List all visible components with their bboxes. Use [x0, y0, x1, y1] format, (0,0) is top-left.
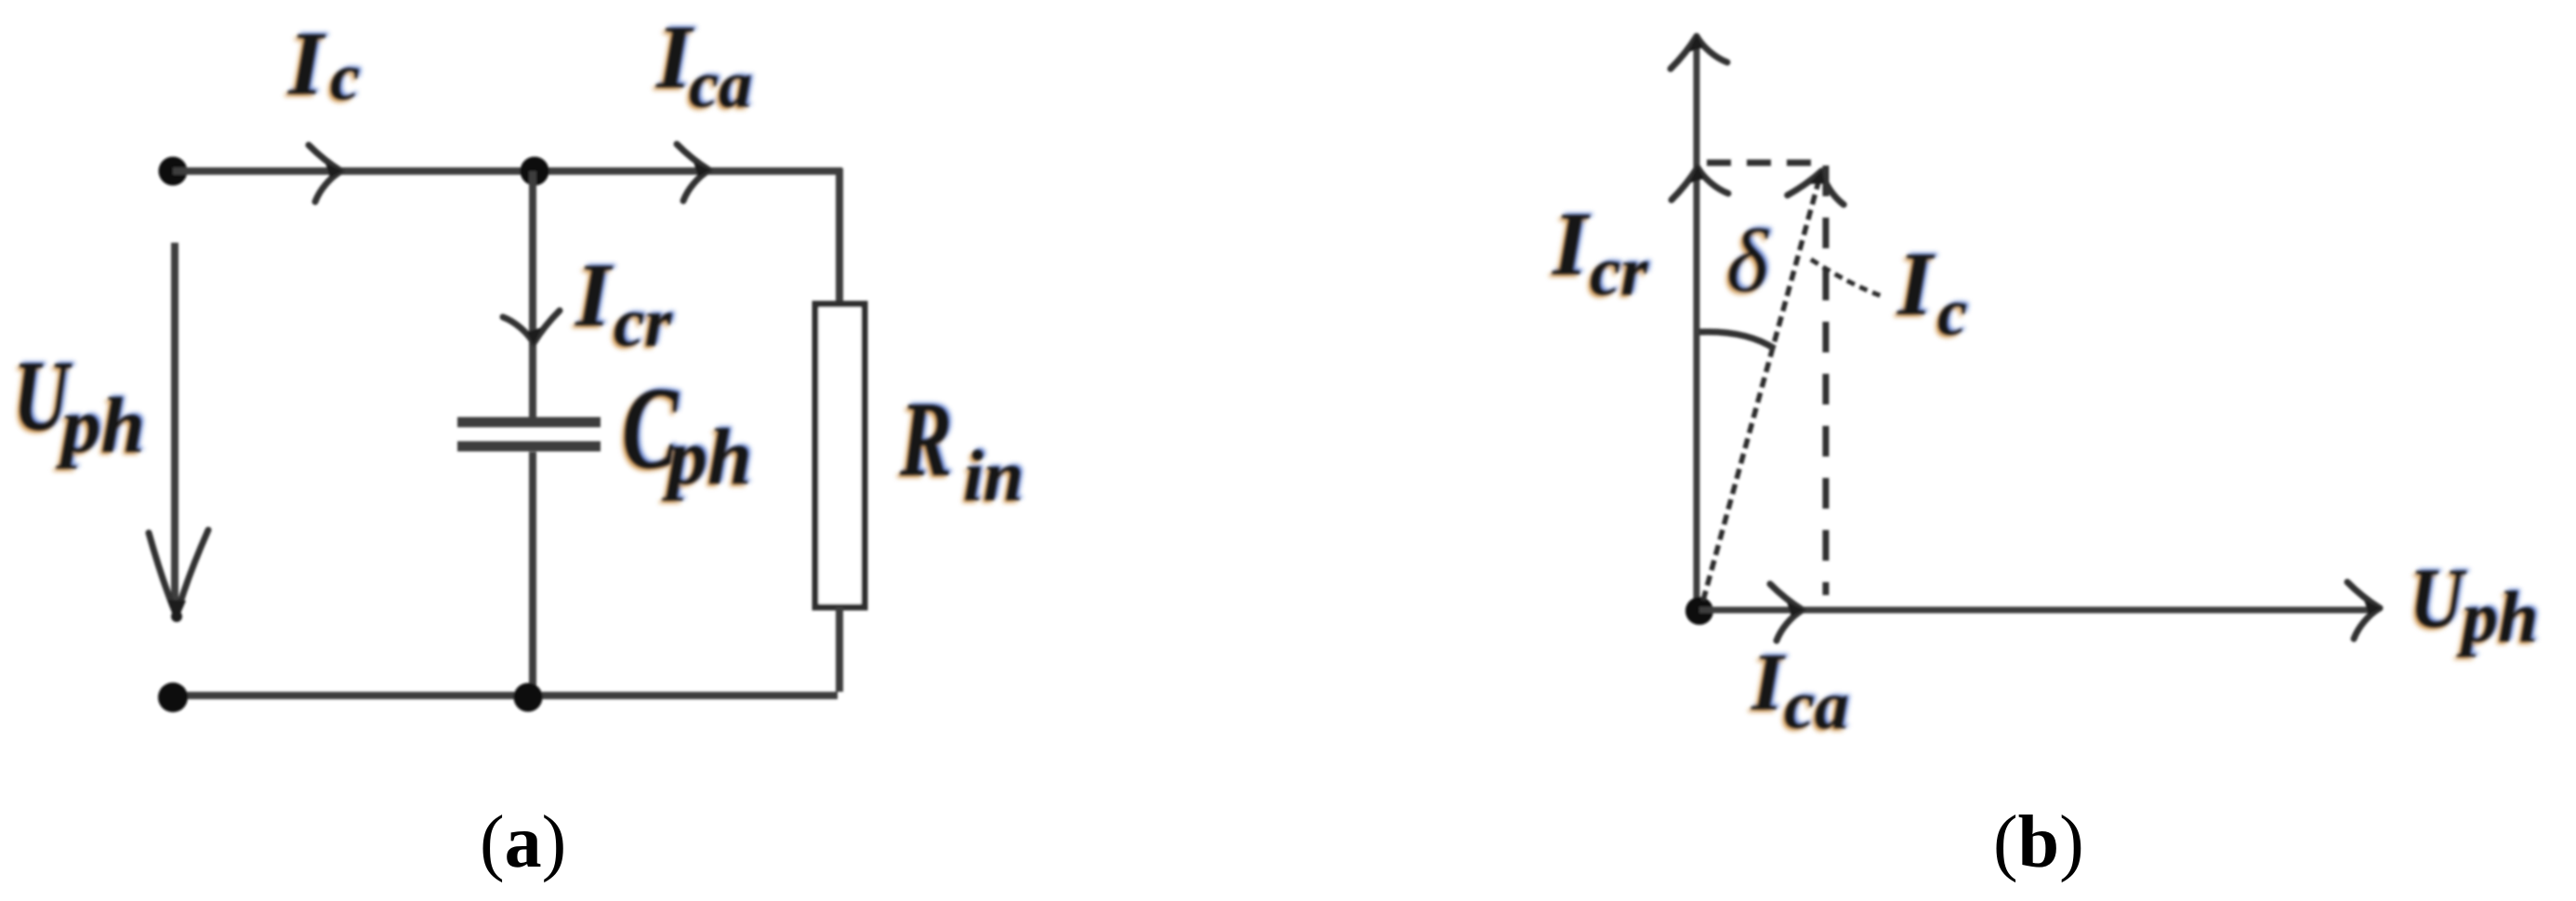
wire: capacitor branch lower — [529, 452, 536, 696]
svg-text:Ic: Ic — [1896, 234, 1967, 350]
node: phasor origin — [1685, 597, 1713, 625]
wire: top horizontal — [173, 167, 842, 175]
svg-text:Icr: Icr — [575, 245, 672, 362]
svg-text:Uph: Uph — [2410, 550, 2538, 657]
axis: horizontal arrowhead — [2347, 582, 2382, 639]
vector Ic dashed line — [1703, 182, 1818, 601]
label Ic — [284, 12, 363, 117]
leader line to Ic label — [1811, 259, 1881, 296]
current arrow Ica phasor — [1770, 584, 1804, 641]
caption (a) — [480, 802, 566, 883]
svg-text:Uph: Uph — [13, 341, 145, 470]
label Ica — [653, 6, 755, 125]
svg-text:Icr: Icr — [1552, 194, 1648, 311]
label Cph — [619, 363, 755, 504]
svg-text:(b): (b) — [1993, 802, 2084, 883]
resistor Rin body — [815, 304, 865, 607]
wire: right vertical below resistor — [836, 607, 843, 692]
label Ica phasor — [1748, 636, 1852, 747]
current arrow Ica — [677, 144, 711, 201]
wire: right vertical from top wire to resistor — [836, 168, 843, 304]
current arrow Icr — [503, 311, 560, 345]
vector Icr arrowhead — [1671, 166, 1728, 200]
node: top-left terminal — [159, 157, 188, 186]
dashed projection vertical — [1823, 166, 1830, 595]
voltage arrow Uph line — [171, 243, 178, 604]
voltage arrow Uph head — [149, 530, 208, 622]
svg-text:δ: δ — [1726, 211, 1769, 311]
axis: vertical — [1694, 39, 1700, 609]
capacitor Cph plates — [457, 422, 601, 446]
node: bottom junction — [514, 683, 543, 712]
svg-text:Cph: Cph — [622, 364, 752, 501]
angle arc delta — [1699, 332, 1775, 349]
wire: capacitor branch upper — [529, 171, 536, 417]
label Uph — [10, 339, 148, 472]
label Rin — [896, 378, 1026, 519]
svg-text:Ica: Ica — [655, 7, 752, 122]
label Icr — [572, 244, 675, 364]
svg-text:(a): (a) — [480, 802, 566, 883]
node: middle junction — [521, 157, 549, 186]
node: bottom-left terminal — [158, 682, 188, 712]
wire: bottom horizontal — [173, 692, 838, 699]
vector Ic arrowhead — [1788, 162, 1852, 210]
caption (b) — [1993, 802, 2084, 883]
svg-text:Ica: Ica — [1750, 638, 1849, 744]
dashed projection horizontal — [1707, 160, 1826, 166]
label Ic phasor — [1894, 232, 1970, 352]
axis: horizontal Uph — [1699, 607, 2376, 614]
label delta — [1724, 209, 1772, 313]
current arrow Ic — [309, 145, 343, 202]
axis: vertical arrowhead — [1671, 34, 1727, 69]
label Icr phasor — [1549, 192, 1651, 313]
label Uph phasor — [2407, 549, 2541, 660]
